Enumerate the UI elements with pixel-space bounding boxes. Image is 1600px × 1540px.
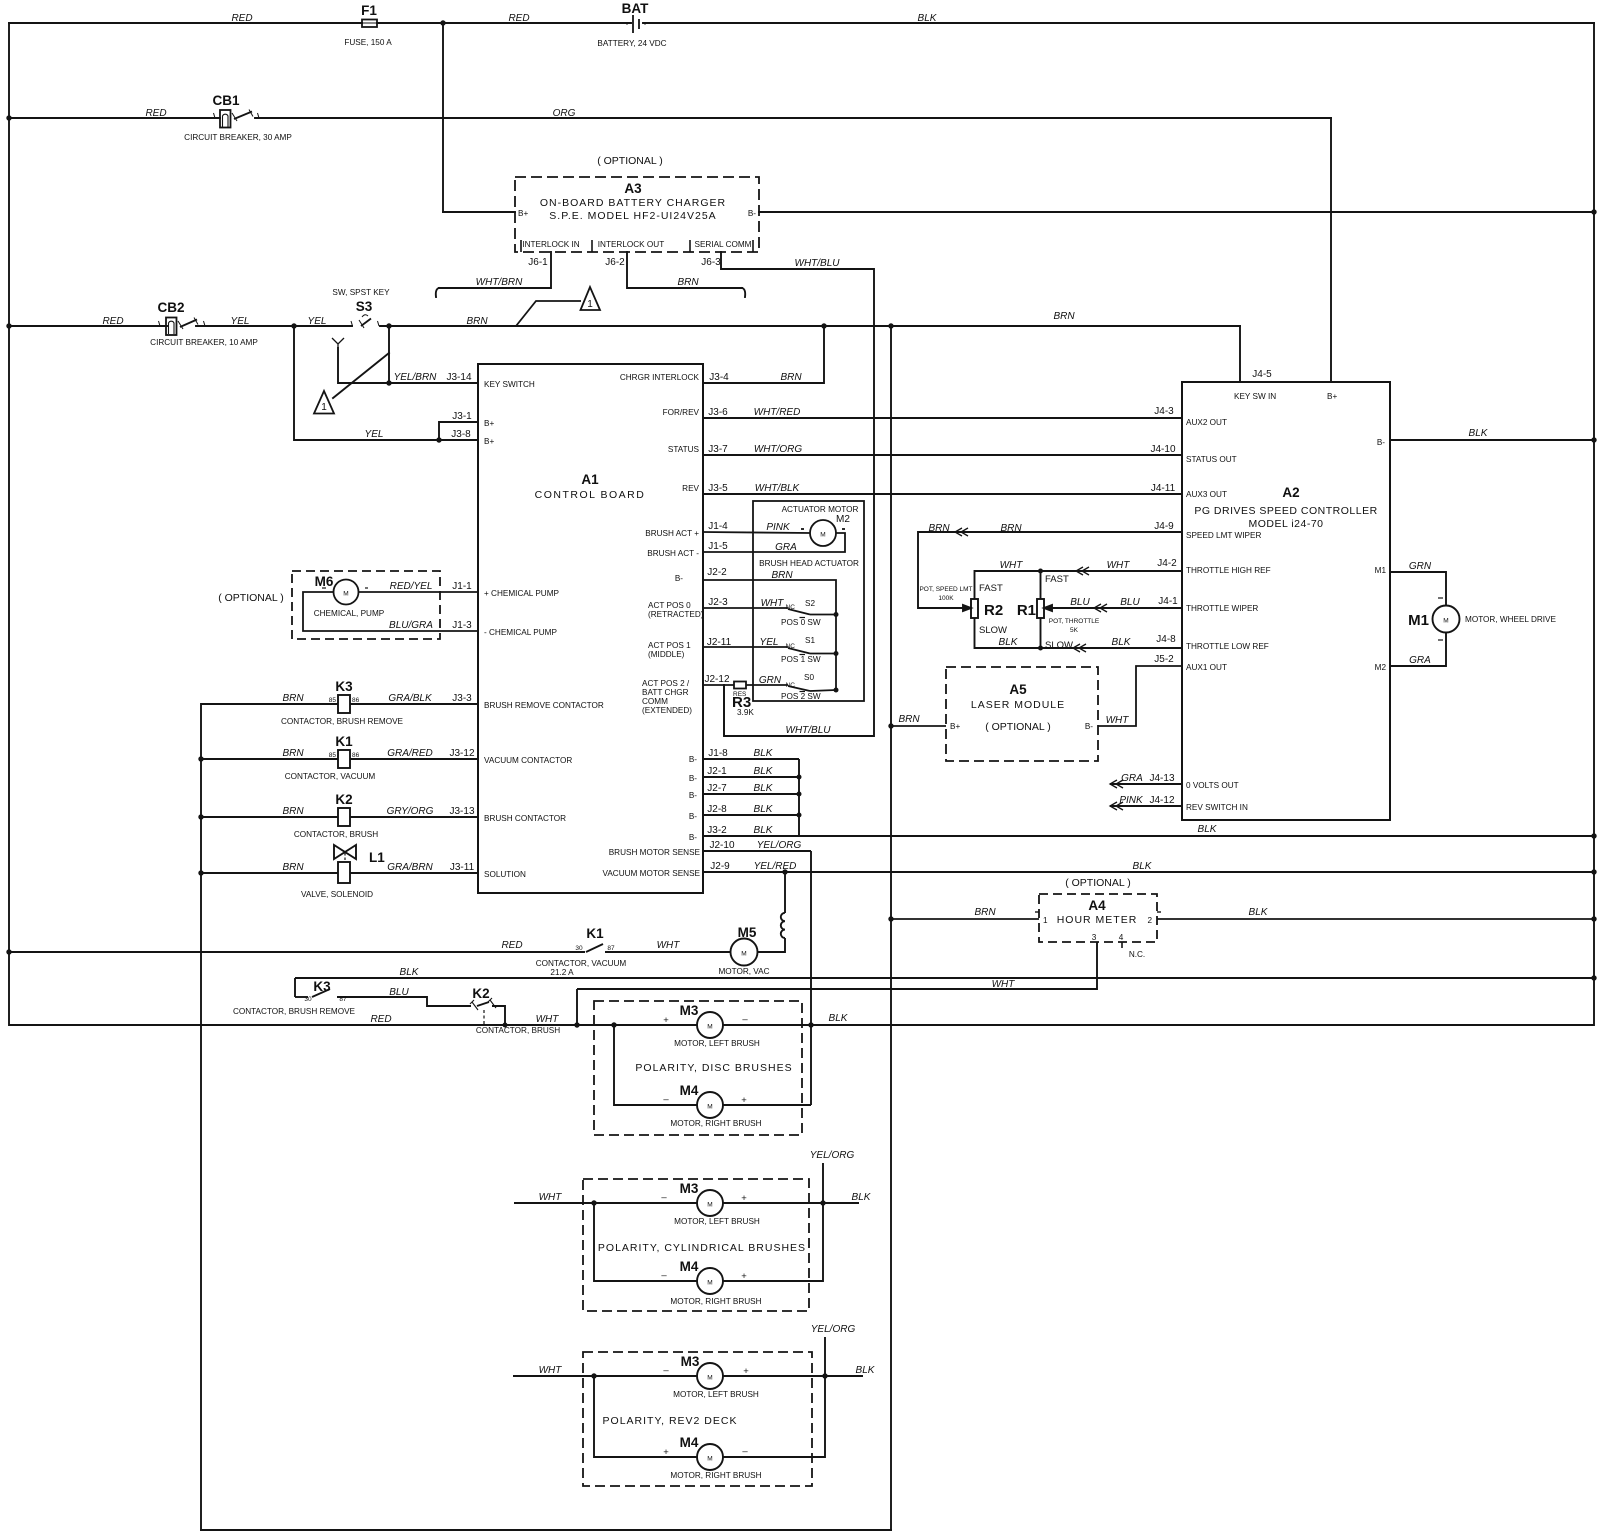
svg-text:RED: RED	[501, 940, 522, 951]
wire battery positive drop to A3 B+	[442, 23, 444, 212]
junction node S3 output	[386, 323, 391, 328]
contactor K2 coil wire BRN	[201, 816, 338, 818]
box actuator motor / brush head actuator	[753, 501, 864, 701]
svg-text:AUX2 OUT: AUX2 OUT	[1186, 418, 1227, 427]
svg-text:BRUSH ACT -: BRUSH ACT -	[647, 549, 699, 558]
svg-text:B+: B+	[950, 722, 960, 731]
motor M5 vac	[731, 939, 758, 966]
svg-text:CB2: CB2	[157, 300, 184, 315]
svg-text:J6-1: J6-1	[528, 257, 548, 268]
svg-text:POLARITY, CYLINDRICAL BRUSHES: POLARITY, CYLINDRICAL BRUSHES	[598, 1242, 806, 1254]
svg-text:M: M	[820, 532, 825, 539]
wire J6-2 interlock out BRN	[627, 252, 742, 288]
svg-text:BRUSH MOTOR SENSE: BRUSH MOTOR SENSE	[609, 848, 701, 857]
wire coil to YEL/RED tap	[784, 872, 786, 913]
box polarity REV2 deck	[583, 1352, 812, 1486]
svg-text:J4-8: J4-8	[1156, 634, 1176, 645]
svg-text:ACTUATOR MOTOR: ACTUATOR MOTOR	[782, 505, 859, 514]
wire M4 loop right (deck)	[723, 1337, 825, 1457]
svg-text:J2-12: J2-12	[704, 674, 729, 685]
svg-text:WHT: WHT	[536, 1014, 560, 1025]
wire S3 drop to key line	[388, 326, 390, 383]
battery BAT	[626, 15, 646, 33]
note triangle 1 (near A3)	[581, 287, 601, 310]
svg-text:BLK: BLK	[999, 637, 1019, 648]
wire BLU K3 87 step to K2	[337, 997, 471, 1006]
wire RED K1 contact row	[9, 951, 585, 953]
hook end J6-1	[436, 288, 439, 297]
svg-text:K3: K3	[335, 679, 353, 694]
motor M6 chemical pump	[334, 580, 359, 605]
svg-text:BRUSH REMOVE CONTACTOR: BRUSH REMOVE CONTACTOR	[484, 701, 604, 710]
svg-text:POS 2 SW: POS 2 SW	[781, 692, 821, 701]
svg-text:NC: NC	[786, 643, 796, 650]
contactor K3 coil	[338, 695, 350, 713]
svg-text:3: 3	[1092, 933, 1097, 942]
svg-text:VACUUM MOTOR SENSE: VACUUM MOTOR SENSE	[602, 869, 700, 878]
svg-text:THROTTLE WIPER: THROTTLE WIPER	[1186, 604, 1258, 613]
svg-text:BRN: BRN	[928, 523, 950, 534]
switch S0 pos 2 sw	[746, 684, 788, 686]
wire GRA/BRN J3-11	[350, 872, 478, 874]
svg-text:BLK: BLK	[754, 766, 774, 777]
svg-text:VACUUM CONTACTOR: VACUUM CONTACTOR	[484, 756, 572, 765]
svg-text:BRN: BRN	[282, 748, 304, 759]
svg-text:BLK: BLK	[856, 1365, 876, 1376]
svg-text:–: –	[663, 1365, 669, 1376]
svg-text:BLK: BLK	[1198, 824, 1218, 835]
svg-text:BLK: BLK	[754, 825, 774, 836]
wire WHT K1 to M5	[605, 951, 731, 953]
wire REV J3-5 WHT/BLK to A2 J4-11	[703, 493, 1182, 495]
svg-text:CONTACTOR, BRUSH: CONTACTOR, BRUSH	[476, 1026, 560, 1035]
junction node J3-4 hook on BRN	[821, 323, 826, 328]
junction node YEL/ORG (deck)	[822, 1373, 827, 1378]
svg-text:J1-1: J1-1	[452, 581, 472, 592]
svg-text:WHT: WHT	[1107, 560, 1131, 571]
pin divider lines A3	[521, 240, 753, 252]
svg-text:POLARITY, DISC BRUSHES: POLARITY, DISC BRUSHES	[635, 1062, 792, 1074]
wire WHT riser to A4 pin3 line	[576, 989, 578, 1025]
wire M4 loop right (cyl)	[723, 1163, 823, 1281]
svg-text:WHT/BRN: WHT/BRN	[476, 277, 523, 288]
svg-text:B-: B-	[1377, 438, 1385, 447]
box polarity cylindrical brushes	[583, 1179, 809, 1311]
svg-text:J2-7: J2-7	[707, 783, 727, 794]
svg-text:M: M	[707, 1202, 712, 1209]
wire YEL CB2 to S3	[196, 325, 352, 327]
svg-text:WHT: WHT	[1106, 715, 1130, 726]
wire RED battery top left	[9, 22, 362, 24]
motor M3 left brush (disc)	[697, 1012, 723, 1038]
svg-text:YEL/ORG: YEL/ORG	[810, 1150, 855, 1161]
junction node BRN vertical top	[888, 323, 893, 328]
wire BLK bus to right edge	[295, 977, 1594, 979]
svg-text:1: 1	[1043, 916, 1048, 925]
wire bottom BRN return	[201, 1529, 891, 1531]
svg-text:M4: M4	[680, 1083, 699, 1098]
pot R1 throttle 5K body	[1037, 599, 1044, 618]
svg-text:BLK: BLK	[852, 1192, 872, 1203]
svg-text:BRUSH HEAD ACTUATOR: BRUSH HEAD ACTUATOR	[759, 559, 859, 568]
svg-text:BRN: BRN	[780, 372, 802, 383]
svg-text:–: –	[661, 1192, 667, 1203]
svg-text:WHT/BLK: WHT/BLK	[755, 483, 801, 494]
svg-text:S0: S0	[804, 673, 814, 682]
svg-text:CHRGR INTERLOCK: CHRGR INTERLOCK	[620, 373, 700, 382]
svg-text:(RETRACTED): (RETRACTED)	[648, 610, 704, 619]
motor M3 left brush (cyl)	[697, 1190, 723, 1216]
svg-text:BLK: BLK	[754, 804, 774, 815]
svg-text:SW, SPST KEY: SW, SPST KEY	[332, 288, 390, 297]
svg-text:B+: B+	[484, 419, 494, 428]
svg-text:NC: NC	[786, 682, 796, 689]
junction node A3 B- right edge	[1591, 209, 1596, 214]
svg-text:WHT/BLU: WHT/BLU	[795, 258, 841, 269]
svg-text:K1: K1	[586, 926, 604, 941]
svg-text:J2-2: J2-2	[707, 567, 727, 578]
wire RED/YEL to J1-1	[359, 591, 479, 593]
svg-text:MOTOR, VAC: MOTOR, VAC	[718, 967, 769, 976]
svg-text:J3-2: J3-2	[707, 825, 727, 836]
wire GRA/BLK J3-3	[350, 703, 478, 705]
arrow chevrons PINK J4-12	[1110, 802, 1123, 810]
junction node BRN tap A4	[888, 916, 893, 921]
junction node K1 coil on bus	[198, 756, 203, 761]
svg-text:SOLUTION: SOLUTION	[484, 870, 526, 879]
svg-text:K2: K2	[335, 792, 352, 807]
svg-text:CONTACTOR, BRUSH REMOVE: CONTACTOR, BRUSH REMOVE	[281, 717, 404, 726]
svg-text:CIRCUIT BREAKER, 10 AMP: CIRCUIT BREAKER, 10 AMP	[150, 338, 258, 347]
wire BLK corner down to K3 contact	[294, 978, 296, 997]
svg-text:86: 86	[352, 697, 360, 704]
valve L1 solenoid wire BRN	[201, 872, 338, 874]
circuit breaker CB1	[220, 110, 231, 128]
svg-text:J4-1: J4-1	[1158, 596, 1178, 607]
wire BRN coil-common vertical x=891	[890, 326, 892, 1530]
svg-text:M: M	[741, 951, 746, 958]
svg-text:100K: 100K	[938, 595, 954, 602]
svg-text:J2-8: J2-8	[707, 804, 727, 815]
arrow chevrons WHT J4-2	[1076, 567, 1089, 575]
wire VACUUM MOTOR SENSE J2-9 YEL/RED - BLK to right edge	[703, 871, 1594, 873]
svg-text:0 VOLTS OUT: 0 VOLTS OUT	[1186, 781, 1239, 790]
wire BLU/GRA to J1-3	[303, 592, 478, 631]
wire R1 bottom stub	[1040, 618, 1042, 648]
harness mark Y below S3	[332, 338, 344, 348]
box A5 laser module (optional)	[946, 667, 1098, 761]
svg-text:CONTACTOR, VACUUM: CONTACTOR, VACUUM	[536, 959, 627, 968]
svg-text:MOTOR, LEFT BRUSH: MOTOR, LEFT BRUSH	[673, 1390, 759, 1399]
wire B- bus vertical	[798, 759, 800, 836]
svg-text:+: +	[663, 1015, 669, 1026]
svg-text:J4-11: J4-11	[1151, 483, 1176, 494]
svg-text:POT, SPEED LMT: POT, SPEED LMT	[919, 586, 972, 593]
wire BRN S3 to corner	[380, 325, 1240, 327]
svg-text:J3-8: J3-8	[451, 429, 471, 440]
svg-text:M: M	[707, 1024, 712, 1031]
wire PINK J1-4 to M2	[703, 532, 810, 533]
wire A2 B- BLK to right edge	[1390, 439, 1594, 441]
wire YEL step to J3-1	[439, 422, 478, 440]
arrow chevrons BLK J4-8	[1073, 644, 1086, 652]
contact blade K3	[312, 989, 330, 997]
wire A3 B- BLK to right edge	[759, 211, 1594, 213]
svg-text:RED/YEL: RED/YEL	[390, 581, 433, 592]
leader to note triangle near A3	[516, 301, 581, 326]
junction node battery drop	[440, 20, 445, 25]
svg-text:SLOW: SLOW	[979, 625, 1007, 636]
svg-text:K3: K3	[313, 979, 331, 994]
svg-text:CONTACTOR, VACUUM: CONTACTOR, VACUUM	[285, 772, 376, 781]
svg-text:YEL/RED: YEL/RED	[754, 861, 797, 872]
svg-text:NC: NC	[786, 604, 796, 611]
junction node YEL/ORG (cyl)	[820, 1200, 825, 1205]
svg-text:YEL: YEL	[231, 316, 250, 327]
svg-text:HOUR METER: HOUR METER	[1057, 914, 1138, 926]
svg-text:B+: B+	[518, 209, 528, 218]
junction node A4 BLK right edge	[1591, 916, 1596, 921]
svg-text:B-: B-	[689, 755, 697, 764]
svg-text:SPEED LMT WIPER: SPEED LMT WIPER	[1186, 531, 1261, 540]
wire M5 to sense coil	[758, 938, 786, 952]
wire RED CB2 row left	[9, 325, 167, 327]
svg-text:CONTROL BOARD: CONTROL BOARD	[535, 489, 646, 501]
junction node J2-7 on B- bus	[797, 792, 802, 797]
svg-text:LASER MODULE: LASER MODULE	[971, 699, 1065, 711]
svg-text:J2-1: J2-1	[707, 766, 727, 777]
pot R2 speed lmt 100K body	[971, 599, 978, 618]
wire BRN to A5 B+	[891, 725, 946, 727]
svg-text:1: 1	[321, 402, 327, 413]
svg-text:+: +	[741, 1271, 747, 1282]
svg-text:KEY SW IN: KEY SW IN	[1234, 392, 1276, 401]
wire ORG CB1 to corner	[255, 117, 1331, 119]
svg-text:BRN: BRN	[1053, 311, 1075, 322]
svg-text:M6: M6	[315, 574, 334, 589]
tick + M6	[365, 587, 368, 589]
svg-text:INTERLOCK IN: INTERLOCK IN	[522, 240, 579, 249]
wire GRA J4-13 stub	[1110, 783, 1182, 785]
wire left edge vertical bus	[8, 23, 10, 1025]
svg-text:BLU/GRA: BLU/GRA	[389, 620, 433, 631]
junction node S1 out	[834, 651, 839, 656]
arrow chevrons GRA J4-13	[1110, 780, 1123, 788]
svg-text:–: –	[661, 1270, 667, 1281]
wire WHT A4 pin3 line	[577, 942, 1097, 989]
box A3 on-board battery charger (optional)	[515, 177, 759, 252]
wiper arrow R2	[963, 605, 971, 611]
resistor R3 3.9K	[703, 684, 734, 686]
wire RED CB1 row left	[9, 117, 220, 119]
wire GRA M1 bottom	[1390, 632, 1446, 666]
junction node M4 loop top (disc)	[611, 1022, 616, 1027]
svg-text:B-: B-	[675, 574, 683, 583]
svg-text:MODEL i24-70: MODEL i24-70	[1248, 518, 1323, 530]
svg-text:A1: A1	[581, 472, 599, 487]
wire A5 B- WHT to J5-2	[1098, 666, 1182, 726]
svg-text:B-: B-	[689, 791, 697, 800]
svg-text:J4-9: J4-9	[1154, 521, 1174, 532]
inductor sense coil	[781, 913, 785, 938]
svg-text:WHT/BLU: WHT/BLU	[786, 725, 832, 736]
wiper arrow R1	[1044, 605, 1052, 611]
wire A4 pin 2 BLK to right edge	[1157, 918, 1594, 920]
wire PINK J4-12 stub	[1110, 805, 1182, 807]
svg-text:PG DRIVES SPEED CONTROLLER: PG DRIVES SPEED CONTROLLER	[1194, 505, 1377, 517]
svg-text:CB1: CB1	[212, 93, 239, 108]
junction node YEL/RED right edge	[1591, 869, 1596, 874]
junction node J2-8 on B- bus	[797, 813, 802, 818]
svg-text:( OPTIONAL ): ( OPTIONAL )	[597, 155, 663, 167]
svg-text:J3-3: J3-3	[452, 693, 472, 704]
svg-text:MOTOR, WHEEL DRIVE: MOTOR, WHEEL DRIVE	[1465, 615, 1557, 624]
wire M4 loop left (deck)	[594, 1376, 697, 1457]
svg-text:ACT POS 1: ACT POS 1	[648, 641, 691, 650]
svg-text:AUX3 OUT: AUX3 OUT	[1186, 490, 1227, 499]
svg-text:S1: S1	[805, 636, 815, 645]
svg-text:FAST: FAST	[979, 583, 1003, 594]
pin 1 tick A4	[1035, 911, 1039, 913]
svg-text:BLU: BLU	[1070, 597, 1090, 608]
svg-text:- CHEMICAL PUMP: - CHEMICAL PUMP	[484, 628, 557, 637]
wire B- J2-7 BLK	[703, 793, 799, 795]
wire BRN drop to A2 KEY SW IN J4-5	[1239, 326, 1241, 382]
wire RED fuse to battery	[377, 22, 631, 24]
wire BLK battery to right edge	[643, 22, 1594, 24]
junction node BRN tap A5	[888, 723, 893, 728]
svg-text:J3-11: J3-11	[450, 862, 475, 873]
wire M4 loop left (disc)	[614, 1025, 697, 1105]
wire right edge BLK vertical	[1593, 23, 1595, 1025]
svg-text:J1-4: J1-4	[708, 521, 728, 532]
svg-text:J3-5: J3-5	[708, 483, 728, 494]
svg-text:B-: B-	[748, 209, 756, 218]
svg-text:POS 1 SW: POS 1 SW	[781, 655, 821, 664]
junction node M4 loop top (deck)	[591, 1373, 596, 1378]
svg-text:REV: REV	[682, 484, 699, 493]
svg-text:–: –	[663, 1094, 669, 1105]
svg-text:J5-2: J5-2	[1154, 654, 1174, 665]
svg-text:J2-10: J2-10	[709, 840, 734, 851]
svg-text:( OPTIONAL ): ( OPTIONAL )	[218, 592, 284, 604]
svg-text:GRA: GRA	[1409, 655, 1431, 666]
svg-text:J4-2: J4-2	[1157, 558, 1177, 569]
junction node R1 top on WHT	[1038, 569, 1043, 574]
wire YEL/ORG drop to disc brush node	[810, 851, 812, 1105]
svg-text:WHT/RED: WHT/RED	[754, 407, 801, 418]
junction node M4 loop top (cyl)	[591, 1200, 596, 1205]
junction node J3-8 step	[436, 437, 441, 442]
svg-text:BRN: BRN	[282, 806, 304, 817]
contact blade K1	[586, 944, 603, 952]
svg-text:M: M	[707, 1456, 712, 1463]
svg-text:BRUSH ACT +: BRUSH ACT +	[645, 529, 699, 538]
svg-text:YEL: YEL	[365, 429, 384, 440]
svg-text:( OPTIONAL ): ( OPTIONAL )	[985, 721, 1051, 733]
svg-text:1: 1	[587, 299, 593, 310]
tick + M2	[801, 528, 804, 530]
wire left coil bus x=201	[200, 704, 202, 1530]
svg-text:BRN: BRN	[282, 693, 304, 704]
svg-text:M2: M2	[836, 514, 850, 525]
junction node S2 out	[834, 612, 839, 617]
svg-text:M2: M2	[1375, 663, 1387, 672]
svg-text:M: M	[707, 1104, 712, 1111]
junction node left edge CB1	[6, 115, 11, 120]
svg-text:M: M	[343, 591, 348, 598]
wire YEL/BRN key switch J3-14	[338, 348, 478, 383]
svg-text:B-: B-	[689, 774, 697, 783]
svg-text:ACT POS 2 /: ACT POS 2 /	[642, 679, 690, 688]
wire GRA/RED J3-12	[350, 758, 478, 760]
svg-text:S.P.E. MODEL HF2-UI24V25A: S.P.E. MODEL HF2-UI24V25A	[549, 210, 716, 222]
motor M4 right brush (deck)	[697, 1444, 723, 1470]
motor M2 actuator motor	[810, 520, 836, 546]
svg-text:GRA/BRN: GRA/BRN	[387, 862, 433, 873]
wire BRN to A4 pin 1	[891, 918, 1039, 920]
svg-text:85: 85	[329, 752, 337, 759]
arrow chevrons BLU J4-1	[1094, 604, 1107, 612]
svg-text:J3-13: J3-13	[449, 806, 474, 817]
motor M3 left brush (deck)	[697, 1363, 723, 1389]
svg-text:BLK: BLK	[1249, 907, 1269, 918]
svg-text:RED: RED	[102, 316, 123, 327]
svg-text:BATT CHGR: BATT CHGR	[642, 688, 689, 697]
svg-text:J3-6: J3-6	[708, 407, 728, 418]
svg-text:R1: R1	[1017, 602, 1036, 619]
svg-text:YEL: YEL	[308, 316, 327, 327]
wire WHT into deck box	[513, 1375, 697, 1377]
svg-text:J1-3: J1-3	[452, 620, 472, 631]
svg-text:B-: B-	[1085, 722, 1093, 731]
box M6 chemical pump (optional)	[292, 571, 440, 639]
junction node left edge CB2	[6, 323, 11, 328]
svg-text:F1: F1	[361, 3, 377, 18]
svg-text:J3-1: J3-1	[452, 411, 472, 422]
svg-text:M4: M4	[680, 1259, 699, 1274]
box A2 PG drives speed controller	[1182, 382, 1390, 820]
box A4 hour meter (optional)	[1039, 894, 1157, 942]
svg-text:30: 30	[304, 996, 312, 1003]
svg-text:FOR/REV: FOR/REV	[663, 408, 700, 417]
svg-text:GRA/BLK: GRA/BLK	[388, 693, 433, 704]
svg-text:J4-12: J4-12	[1149, 795, 1174, 806]
junction node J2-1 on B- bus	[797, 775, 802, 780]
svg-text:+: +	[743, 1366, 749, 1377]
svg-text:THROTTLE LOW REF: THROTTLE LOW REF	[1186, 642, 1269, 651]
valve L1 bowtie symbol	[334, 845, 356, 859]
svg-text:BRN: BRN	[677, 277, 699, 288]
svg-text:M3: M3	[680, 1003, 699, 1018]
svg-text:RED: RED	[231, 13, 252, 24]
wire YEL drop to B+ rows	[294, 326, 478, 440]
svg-text:WHT: WHT	[992, 979, 1016, 990]
svg-text:BLK: BLK	[1133, 861, 1153, 872]
svg-text:A4: A4	[1088, 898, 1106, 913]
valve L1 coil	[338, 862, 350, 883]
svg-text:(MIDDLE): (MIDDLE)	[648, 650, 685, 659]
svg-text:GRA: GRA	[1121, 773, 1143, 784]
svg-text:GRN: GRN	[1409, 561, 1432, 572]
svg-text:M: M	[707, 1375, 712, 1382]
contactor K1 coil wire BRN	[201, 758, 338, 760]
motor M1 wheel drive	[1433, 606, 1460, 633]
svg-text:2: 2	[1147, 916, 1152, 925]
junction node J3-2 on right edge	[1591, 833, 1596, 838]
junction node R1 bottom on BLK	[1038, 646, 1043, 651]
junction node BLK out (disc)	[808, 1022, 813, 1027]
